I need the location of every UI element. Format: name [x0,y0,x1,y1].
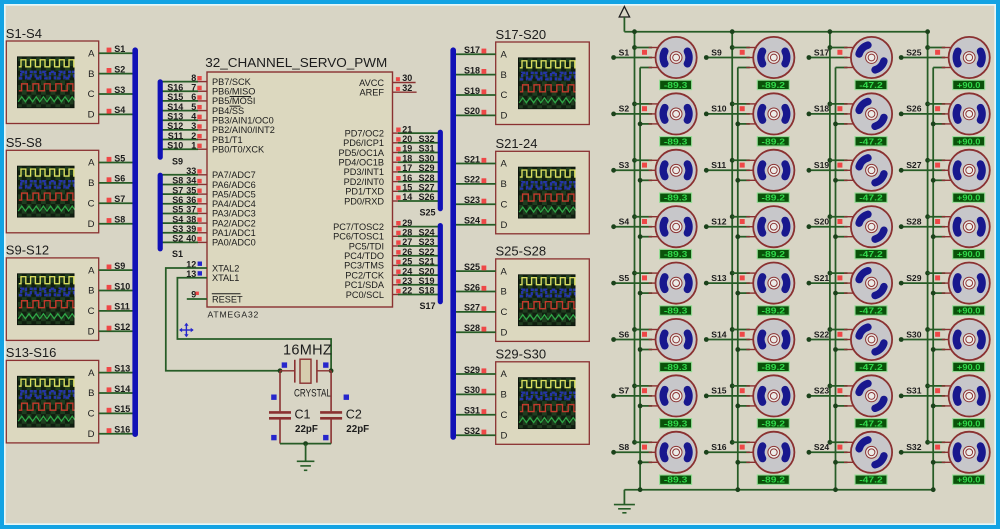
wire scope pin C to bus, net S23 [456,203,496,205]
angle display for S21 value -47.2 [855,306,887,316]
wire servo S7 ground pin [640,405,652,407]
svg-text:2: 2 [191,131,196,141]
svg-text:+90.0: +90.0 [957,193,981,203]
pin-end marker pin 35 [197,189,201,193]
wire scope pin B to bus, net S22 [456,183,496,185]
svg-text:S21: S21 [419,257,435,267]
pin-end marker servo S10 [740,106,745,111]
svg-text:S7: S7 [114,194,125,204]
pin-end marker pin 15 [396,186,400,190]
svg-text:B: B [501,179,507,190]
svg-text:C: C [501,307,508,318]
wire servo S19 signal [809,169,848,171]
junction ground rail row 4 col 3 [833,234,838,239]
wire MCU pin 38 to bus [162,222,198,224]
node S7 wire origin dot [611,394,616,399]
wire scope pin C to bus, net S3 [99,93,133,95]
svg-text:S19: S19 [464,86,480,96]
svg-text:22: 22 [402,286,412,296]
wire ground rail column 1 [639,68,641,490]
svg-text:A: A [501,159,508,170]
svg-text:S2: S2 [114,64,125,74]
svg-text:A: A [88,158,95,169]
wire servo S25 +V pin [928,47,946,49]
oscilloscope display block S1-S4 [6,26,99,124]
svg-text:6: 6 [191,92,196,102]
power arrow symbol (servo supply) [619,7,629,18]
servo motor S14 pins [746,330,760,350]
svg-text:S12: S12 [711,217,727,227]
svg-text:-89.2: -89.2 [762,475,786,485]
pin-end marker S24 [482,219,487,224]
wire servo S18 signal [809,113,848,115]
wire MCU pin 23 to bus [393,284,400,286]
pin-end marker S4 [107,109,112,114]
angle display for S12 value -89.2 [757,249,789,259]
pin-end marker pin 6 [197,95,201,99]
wire servo S6 +V pin [635,329,653,331]
wire scope pin A to bus, net S13 [99,372,133,374]
svg-text:PB4/SS: PB4/SS [212,106,244,116]
wire scope pin B to bus, net S18 [456,74,496,76]
svg-text:S30: S30 [419,153,435,163]
wire +V rail column 3 [829,32,831,443]
wire servo S18 ground pin [836,123,848,125]
wire scope pin A to bus, net S5 [99,162,133,164]
svg-text:S9: S9 [711,47,722,57]
pin-end marker S15 [107,408,112,413]
wire scope pin C to bus, net S11 [99,310,133,312]
wire +V rail column 4 [927,32,929,443]
svg-text:S10: S10 [167,140,183,150]
svg-text:XTAL2: XTAL2 [212,263,239,273]
wire servo S1 ground pin [640,67,652,69]
angle display for S8 value -89.3 [660,475,692,485]
angle display for S15 value -89.2 [757,418,789,428]
svg-text:S32: S32 [906,442,922,452]
svg-text:S24: S24 [814,442,830,452]
svg-text:CRYSTAL: CRYSTAL [294,388,331,400]
svg-text:30: 30 [402,73,412,83]
pin-end marker pin 2 [197,134,201,138]
wire servo S9 ground pin [738,67,750,69]
svg-text:S5: S5 [114,153,125,163]
pin-end marker S30 [482,389,487,394]
pin-end marker servo S13 [740,275,745,280]
wire ground rail column 2 [737,68,739,490]
node S17 wire origin dot [807,55,812,60]
servo motor S9 [753,37,794,78]
node S9 wire origin dot [704,55,709,60]
wire servo S28 ground pin [933,236,945,238]
node S23 wire origin dot [807,394,812,399]
servo motor S8 pins [649,442,663,462]
junction ground rail row 7 col 2 [735,404,740,409]
svg-text:S17: S17 [464,45,480,55]
svg-text:S23: S23 [419,237,435,247]
svg-text:S24: S24 [464,216,480,226]
pin-end marker pin 24 [396,270,400,274]
junction +V rail top column 1 [632,29,637,34]
wire servo S17 +V pin [830,47,848,49]
junction +V rail row 6 col 2 [730,327,735,332]
wire scope pin B to bus, net S14 [99,392,133,394]
wire MCU pin 19 to bus [393,152,400,154]
svg-text:S11: S11 [711,160,726,170]
servo motor S3 [656,150,697,191]
svg-text:21: 21 [402,124,412,134]
wire C1/C2 bottoms to ground [280,443,331,445]
wire MCU pin 40 to bus [162,241,198,243]
pin-end marker pin 33 [197,169,201,173]
pin-end marker S6 [107,177,112,182]
svg-text:PB3/AIN1/OC0: PB3/AIN1/OC0 [212,116,274,126]
svg-text:S18: S18 [419,286,435,296]
svg-text:S6: S6 [114,174,125,184]
junction +V rail row 4 col 1 [632,214,637,219]
pin-end marker servo S29 [935,275,940,280]
angle display for S14 value -89.2 [757,362,789,372]
MCU right bus segment (PC) [438,226,443,302]
pin-end marker servo S16 [740,445,745,450]
junction +V rail row 6 col 3 [828,327,833,332]
svg-text:26: 26 [402,247,412,257]
svg-text:S31: S31 [419,144,435,154]
svg-text:S7: S7 [172,185,183,195]
servo motor S12 [753,206,794,247]
svg-text:S29: S29 [906,273,922,283]
wire servo S18 +V pin [830,103,848,105]
junction ground rail row 3 col 1 [638,178,643,183]
servo motor S26 pins [942,104,956,124]
svg-text:S25: S25 [420,208,436,218]
pin-end marker pin 28 [396,231,400,235]
wire servo S11 signal [706,169,750,171]
angle display for S5 value -89.3 [660,306,692,316]
microcontroller U1 ATMEGA32 body [207,72,393,307]
svg-text:S16: S16 [711,442,727,452]
svg-text:-89.3: -89.3 [664,475,688,485]
left vertical bus (scope side) [132,50,138,434]
junction +V rail row 8 col 1 [632,440,637,445]
wire scope pin B to bus, net S10 [99,290,133,292]
svg-text:S5-S8: S5-S8 [6,135,42,150]
crystal X1 16MHZ [280,343,332,400]
wire servo S24 signal [809,451,848,453]
angle display for S13 value -89.2 [757,306,789,316]
wire servo S20 ground pin [836,236,848,238]
svg-text:22pF: 22pF [295,424,318,435]
junction ground rail row 7 col 1 [638,404,643,409]
angle display for S32 value +90.0 [953,475,985,485]
wire scope pin B to bus, net S26 [456,291,496,293]
junction ground rail row 5 col 2 [735,291,740,296]
wire servo S30 signal [901,339,945,341]
selection handle [323,435,328,440]
angle display for S9 value -89.2 [757,80,789,90]
svg-text:27: 27 [402,237,412,247]
pin-end marker S19 [482,89,487,94]
node S8 wire origin dot [611,450,616,455]
pin-end marker S28 [482,327,487,332]
wire servo S27 signal [901,169,945,171]
svg-text:S14: S14 [711,329,727,339]
wire MCU pin 29 to bus [393,226,400,228]
wire servo S11 +V pin [732,159,750,161]
pin-end marker servo S15 [740,388,745,393]
junction +V rail row 2 col 1 [632,102,637,107]
oscilloscope display block S21-24 [496,136,590,234]
svg-text:8: 8 [191,73,196,83]
wire servo S11 ground pin [738,179,750,181]
wire servo S2 signal [614,113,653,115]
wire scope pin A to bus, net S25 [456,270,496,272]
wire scope pin B to bus, net S30 [456,393,496,395]
junction ground rail bottom column 4 [931,487,936,492]
wire scope pin D to bus, net S4 [99,113,133,115]
servo motor S31 pins [942,386,956,406]
servo motor S10 pins [746,104,760,124]
angle display for S19 value -47.2 [855,193,887,203]
wire scope pin C to bus, net S19 [456,94,496,96]
pin-end marker pin 8 [197,76,201,80]
servo motor S24 [842,423,900,481]
ground symbol (crystal) [297,461,315,470]
svg-text:S12: S12 [167,121,183,131]
node S27 wire origin dot [899,168,904,173]
svg-text:XTAL1: XTAL1 [212,273,239,283]
svg-text:S9-S12: S9-S12 [6,243,49,258]
node S21 wire origin dot [807,281,812,286]
wire servo S9 +V pin [732,47,750,49]
svg-text:S1: S1 [114,44,125,54]
servo motor S1 pins [649,48,663,68]
wire servo S8 +V pin [635,441,653,443]
servo motor S6 [656,319,697,360]
svg-text:S15: S15 [711,386,727,396]
servo motor S29 [949,263,990,304]
svg-text:39: 39 [186,224,196,234]
wire servo S1 signal [614,57,653,59]
servo motor S4 [656,206,697,247]
servo motor S26 [949,93,990,134]
wire MCU pin 6 to bus [162,100,198,102]
svg-text:32: 32 [402,83,412,93]
svg-text:PA7/ADC7: PA7/ADC7 [212,170,256,180]
pin-end marker servo S22 [837,332,842,337]
svg-text:S1: S1 [619,47,630,57]
pin-end marker servo S1 [642,50,647,55]
origin marker (blue crosshair) [179,323,194,338]
wire servo S2 +V pin [635,103,653,105]
junction ground rail row 3 col 2 [735,178,740,183]
svg-text:B: B [88,178,94,189]
svg-text:S29: S29 [464,365,480,375]
svg-text:+90.0: +90.0 [957,80,981,90]
svg-text:PB0/T0/XCK: PB0/T0/XCK [212,145,265,155]
svg-text:S9: S9 [172,157,183,167]
pin-end marker pin 34 [197,179,201,183]
wire MCU pin 1 to bus [162,148,198,150]
svg-text:PD4/OC1B: PD4/OC1B [339,158,384,168]
capacitor C2 22pF [320,371,369,444]
servo motor S17 [842,28,900,86]
servo motor S18 pins [844,104,858,124]
MCU left bus segment (PB) [158,82,163,157]
wire servo S15 +V pin [732,385,750,387]
svg-text:-47.2: -47.2 [859,418,883,428]
angle display for S22 value -47.2 [855,362,887,372]
pin-end marker S16 [107,428,112,433]
servo motor S8 [656,432,697,473]
node S19 wire origin dot [807,168,812,173]
svg-text:5: 5 [191,102,196,112]
wire servo S2 ground pin [640,123,652,125]
svg-text:19: 19 [402,144,412,154]
svg-text:RESET: RESET [212,294,243,304]
svg-text:S2: S2 [172,234,183,244]
svg-text:14: 14 [402,192,412,202]
svg-text:PC3/TMS: PC3/TMS [344,261,384,271]
junction ground rail row 6 col 1 [638,347,643,352]
wire servo S29 signal [901,282,945,284]
angle display for S3 value -89.3 [660,193,692,203]
junction +V rail top column 3 [828,29,833,34]
svg-text:34: 34 [186,176,196,186]
pin-end marker servo S25 [935,50,940,55]
svg-text:S3: S3 [619,160,630,170]
junction ground rail row 8 col 1 [638,460,643,465]
wire MCU pin 21 to bus [393,132,400,134]
pin-end marker pin 23 [396,279,400,283]
wire servo S13 signal [706,282,750,284]
wire servo S14 +V pin [732,329,750,331]
junction ground rail bottom column 3 [833,487,838,492]
svg-text:S16: S16 [167,82,183,92]
node S14 wire origin dot [704,337,709,342]
pin-end marker S2 [107,68,112,73]
svg-text:S21-24: S21-24 [496,136,538,151]
servo motor S2 [656,93,697,134]
wire scope pin A to bus, net S9 [99,269,133,271]
wire servo S22 signal [809,339,848,341]
wire servo S10 signal [706,113,750,115]
oscilloscope display block S17-S20 [496,27,590,125]
servo motor S30 [949,319,990,360]
svg-text:-89.3: -89.3 [664,418,688,428]
MCU left bus segment (PA) [158,175,163,249]
wire servo S16 +V pin [732,441,750,443]
svg-text:S11: S11 [114,302,130,312]
pin-end marker S1 [107,48,112,53]
wire MCU pin 17 to bus [393,171,400,173]
wire MCU pin 3 to bus [162,129,198,131]
svg-text:S22: S22 [419,247,435,257]
svg-text:PB7/SCK: PB7/SCK [212,77,252,87]
angle display for S29 value +90.0 [953,306,985,316]
wire scope pin D to bus, net S28 [456,331,496,333]
wire servo S3 signal [614,169,653,171]
wire MCU pin 35 to bus [162,193,198,195]
wire scope pin B to bus, net S6 [99,182,133,184]
svg-text:D: D [88,429,95,440]
svg-text:1: 1 [191,140,196,150]
pin-end marker S32 [482,430,487,435]
wire scope pin A to bus, net S29 [456,373,496,375]
svg-text:S3: S3 [172,224,183,234]
junction +V rail top column 2 [730,29,735,34]
angle display for S6 value -89.3 [660,362,692,372]
wire servo S25 signal [901,57,945,59]
wire scope pin C to bus, net S7 [99,202,133,204]
wire servo S28 signal [901,226,945,228]
junction ground rail row 7 col 3 [833,404,838,409]
pin-end marker servo S4 [642,219,647,224]
svg-text:PD3/INT1: PD3/INT1 [344,167,384,177]
servo motor S29 pins [942,273,956,293]
svg-text:S18: S18 [464,65,480,75]
pin-end marker S13 [107,367,112,372]
pin-end marker pin 4 [197,115,201,119]
angle display for S27 value +90.0 [953,193,985,203]
junction +V rail row 5 col 2 [730,271,735,276]
junction ground rail row 5 col 1 [638,291,643,296]
svg-text:+90.0: +90.0 [957,249,981,259]
wire XTAL1 to crystal node B [177,278,331,371]
wire servo S20 signal [809,226,848,228]
svg-text:D: D [501,220,508,231]
junction +V rail row 7 col 1 [632,384,637,389]
selection handle [271,395,276,400]
wire scope pin D to bus, net S12 [99,330,133,332]
servo motor S3 pins [649,160,663,180]
node S2 wire origin dot [611,112,616,117]
junction ground rail row 4 col 2 [735,234,740,239]
node S29 wire origin dot [899,281,904,286]
svg-text:S20: S20 [814,217,830,227]
svg-text:S13: S13 [167,111,183,121]
node S5 wire origin dot [611,281,616,286]
pin-end marker servo S27 [935,163,940,168]
servo motor S17 pins [844,48,858,68]
svg-text:S7: S7 [619,386,630,396]
pin-end marker pin 14 [396,195,400,199]
svg-text:ATMEGA32: ATMEGA32 [208,310,260,320]
svg-text:PC2/TCK: PC2/TCK [345,270,385,280]
pin-end marker servo S8 [642,445,647,450]
pin-end marker pin 7 [197,86,201,90]
svg-text:S8: S8 [114,215,125,225]
svg-text:20: 20 [402,134,412,144]
svg-text:S27: S27 [906,160,922,170]
junction +V rail row 1 col 3 [828,45,833,50]
svg-text:C: C [501,200,508,211]
svg-text:D: D [88,219,95,230]
pin-end marker servo S19 [837,163,842,168]
junction ground rail row 2 col 3 [833,122,838,127]
wire MCU pin 5 to bus [162,110,198,112]
pin-end marker pin 37 [197,208,201,212]
pin-end marker servo S2 [642,106,647,111]
svg-text:S26: S26 [419,192,435,202]
wire scope pin D to bus, net S32 [456,434,496,436]
wire RESET stub [187,298,207,300]
wire servo S31 signal [901,395,945,397]
servo motor S11 [753,150,794,191]
wire servo S9 signal [706,57,750,59]
pin-end marker servo S3 [642,163,647,168]
svg-text:36: 36 [186,195,196,205]
